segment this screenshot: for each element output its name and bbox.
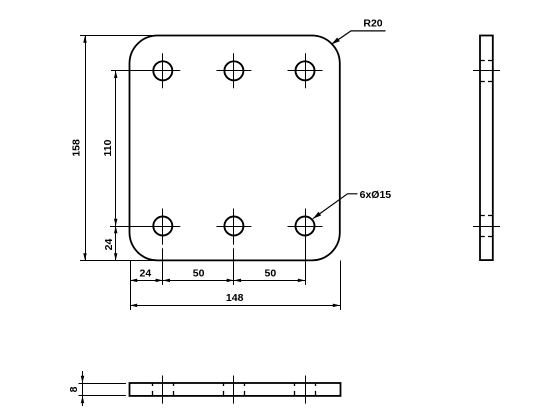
leader R20 arrowhead xyxy=(332,38,340,45)
leader R20 xyxy=(332,31,386,44)
extension line top hole row for 110 xyxy=(111,70,146,72)
bottom view center line col3 xyxy=(305,376,307,404)
svg-text:24: 24 xyxy=(103,239,115,251)
extension line thickness top xyxy=(79,383,126,385)
hole H3 top-right xyxy=(296,61,315,80)
bottom view hidden line col2 left xyxy=(223,383,225,396)
extension line col1 below xyxy=(162,248,164,285)
plate front view outline xyxy=(130,36,340,261)
dimension line row 24/50/50 xyxy=(130,280,305,282)
extension line top edge for 158 xyxy=(80,35,158,37)
leader 6xd15 arrowhead xyxy=(313,212,321,219)
dimension line 148 xyxy=(130,305,340,307)
bottom view center line col1 xyxy=(162,376,164,404)
hole H5 center lines xyxy=(216,209,251,245)
bottom view outline xyxy=(130,383,341,396)
side view center line bottom row xyxy=(473,226,500,228)
side view hidden line top hole upper xyxy=(480,60,493,62)
arrow 110 bottom xyxy=(114,219,118,226)
arrow 50b left xyxy=(234,279,241,283)
extension line bottom edge for 158 xyxy=(80,260,158,262)
arrow 50a left xyxy=(163,279,170,283)
extension line right edge below xyxy=(340,261,342,311)
hole H1 center lines xyxy=(145,53,180,88)
hole H1 top-left xyxy=(153,61,172,80)
dimension line 8 xyxy=(82,371,84,406)
bottom view hidden line col1 left xyxy=(152,383,154,396)
bottom view center line col2 xyxy=(233,376,235,404)
hole H4 bottom-left xyxy=(153,217,172,236)
side view outline xyxy=(480,36,493,261)
svg-text:148: 148 xyxy=(226,292,244,304)
bottom view hidden line col2 right xyxy=(244,383,246,396)
arrow 8 bottom xyxy=(81,396,85,403)
dimension line 158 xyxy=(85,36,87,261)
side view hidden line bottom hole lower xyxy=(480,236,493,238)
arrow 148 left xyxy=(130,304,137,308)
arrow 50a right xyxy=(227,279,234,283)
side view center line top row xyxy=(473,70,500,72)
arrow 8 top xyxy=(81,376,85,383)
svg-text:110: 110 xyxy=(102,139,114,156)
arrow 158 bottom xyxy=(83,253,87,260)
hole H6 center lines xyxy=(288,209,323,245)
arrow 24h left xyxy=(130,279,137,283)
extension line left edge below xyxy=(130,261,132,311)
leader 6xd15 xyxy=(313,194,358,219)
bottom view hidden line col3 right xyxy=(315,383,317,396)
arrow 148 right xyxy=(333,304,340,308)
hole H4 center lines xyxy=(145,209,180,245)
hole H5 bottom-middle xyxy=(224,217,243,236)
hole H3 center lines xyxy=(288,53,323,88)
arrow 50b right xyxy=(298,279,305,283)
hole H2 top-middle xyxy=(224,61,243,80)
hole H2 center lines xyxy=(216,53,251,88)
arrow 24v top xyxy=(114,226,118,233)
bottom view hidden line col1 right xyxy=(173,383,175,396)
svg-text:158: 158 xyxy=(70,139,82,157)
hole H6 bottom-right xyxy=(296,217,315,236)
bottom view hidden line col3 left xyxy=(294,383,296,396)
arrow 24h right xyxy=(156,279,163,283)
svg-text:24: 24 xyxy=(140,268,152,280)
extension line col2 below xyxy=(233,248,235,285)
extension line bottom hole row for 110/24 xyxy=(110,226,146,228)
extension line thickness bottom xyxy=(79,395,126,397)
svg-text:6xØ15: 6xØ15 xyxy=(360,189,392,201)
svg-text:R20: R20 xyxy=(363,18,382,30)
svg-text:50: 50 xyxy=(193,268,205,280)
svg-text:8: 8 xyxy=(68,386,80,392)
arrow 158 top xyxy=(83,36,87,43)
side view hidden line bottom hole upper xyxy=(480,215,493,217)
dimension line 24 vertical xyxy=(115,226,117,260)
arrow 24v bottom xyxy=(114,253,118,260)
arrow 110 top xyxy=(114,71,118,78)
extension line col3 below xyxy=(305,244,307,285)
dimension line 110 xyxy=(115,71,117,226)
svg-text:50: 50 xyxy=(265,268,277,280)
side view hidden line top hole lower xyxy=(480,81,493,83)
